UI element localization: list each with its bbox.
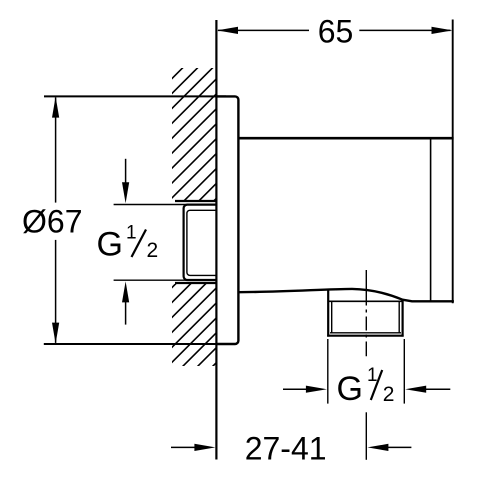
outlet thread inner bottom line bbox=[330, 332, 401, 334]
inlet thread dimension: upper arrowhead (points down) bbox=[122, 182, 129, 203]
svg-text:65: 65 bbox=[318, 14, 354, 50]
outlet nipple left edge bbox=[327, 290, 329, 337]
extension line top of Ø67 bbox=[44, 95, 226, 97]
svg-text:2: 2 bbox=[383, 383, 395, 406]
inlet socket outer diameter bottom line bbox=[175, 282, 216, 284]
outlet nipple right edge bbox=[402, 300, 404, 336]
body (wall union housing) top edge bbox=[239, 137, 454, 140]
outlet thread dimension: right tail bbox=[424, 388, 450, 390]
outlet thread inner right line bbox=[398, 302, 400, 333]
outlet thread dimension: left extension line bbox=[327, 339, 329, 404]
svg-text:Ø67: Ø67 bbox=[22, 203, 82, 239]
wall hatching bbox=[0, 60, 480, 372]
outlet thread dimension: left tail bbox=[283, 388, 308, 390]
dimension Ø67: line upper part bbox=[55, 98, 57, 203]
wall face line (finished wall surface, also extension line for 65 and 27-41) bbox=[215, 20, 217, 460]
svg-text:2: 2 bbox=[147, 239, 159, 262]
front edge silhouette line of body bbox=[430, 139, 432, 301]
dimension 27-41: left arrowhead (points right) bbox=[194, 444, 215, 451]
inlet thread label G 1/2 bbox=[97, 223, 159, 264]
dimension Ø67: line lower part bbox=[55, 240, 57, 343]
inlet socket outer diameter top line bbox=[175, 200, 216, 202]
extension line bottom of Ø67 bbox=[44, 343, 226, 345]
svg-text:1: 1 bbox=[367, 365, 378, 386]
extension line top of inlet thread bbox=[114, 204, 215, 206]
inlet thread dimension: upper arrow tail bbox=[125, 159, 127, 184]
body (wall union housing) bottom contour with outlet boss blend bbox=[239, 289, 454, 301]
dimension 65: line left part bbox=[218, 29, 309, 31]
dimension Ø67: lower arrowhead bbox=[52, 323, 59, 344]
svg-text:27-41: 27-41 bbox=[245, 431, 327, 467]
outlet thread dimension: right arrowhead (points left) bbox=[405, 386, 426, 393]
dimension 65: left arrowhead bbox=[217, 27, 238, 34]
extension line bottom of inlet thread bbox=[114, 279, 215, 281]
outlet thread inner left line bbox=[331, 302, 333, 333]
body right face / extension line of 65 dimension bbox=[452, 20, 454, 304]
outlet centerline (dash-dot) bbox=[365, 270, 367, 356]
dimension Ø67: upper arrowhead bbox=[52, 97, 59, 118]
dimension 27-41: right tail bbox=[387, 446, 411, 448]
inlet thread root line bbox=[187, 210, 216, 275]
outlet nipple shoulder line bbox=[328, 300, 402, 302]
inlet thread G1/2 crest contour bbox=[184, 205, 216, 280]
outlet nipple bottom edge bbox=[327, 335, 403, 337]
outlet centerline extension through 27-41 dimension bbox=[365, 412, 367, 460]
outlet thread dimension: left arrowhead (points right) bbox=[306, 386, 327, 393]
svg-text:G: G bbox=[97, 226, 123, 264]
outlet thread label G 1/2 bbox=[337, 365, 395, 408]
outlet thread dimension: right extension line bbox=[403, 339, 405, 404]
dimension 65: right arrowhead bbox=[432, 27, 453, 34]
inlet thread dimension: lower arrow tail bbox=[125, 302, 127, 325]
dimension 27-41: right arrowhead (points left) bbox=[367, 444, 388, 451]
dimension 27-41: left tail bbox=[171, 446, 197, 448]
escutcheon flange (Ø67 plate on wall) bbox=[216, 96, 238, 344]
dimension 65: line right part bbox=[359, 29, 450, 31]
svg-text:1: 1 bbox=[126, 223, 137, 244]
inlet thread dimension: lower arrowhead (points up) bbox=[122, 281, 129, 302]
svg-text:G: G bbox=[337, 370, 363, 408]
